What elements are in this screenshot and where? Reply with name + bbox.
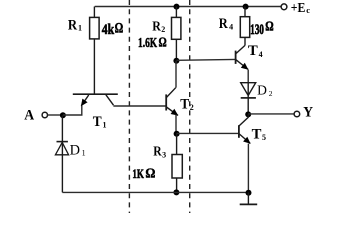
svg-text:2: 2 <box>269 89 273 98</box>
stage boundary dashed line right <box>189 0 191 213</box>
svg-text:3: 3 <box>162 150 166 159</box>
svg-text:1K: 1K <box>132 166 144 181</box>
node junction input <box>60 112 66 118</box>
svg-text:R: R <box>153 144 162 159</box>
wire T2 collector <box>175 61 177 88</box>
resistor R4 <box>240 7 249 46</box>
transistor T1 <box>73 94 118 106</box>
terminal Y <box>294 111 300 117</box>
wire top power rail <box>95 6 281 8</box>
wire T2 emitter <box>175 115 177 134</box>
wire bottom ground rail <box>62 191 248 193</box>
svg-text:+E: +E <box>291 0 306 15</box>
svg-text:D: D <box>257 83 267 98</box>
wire T2 emitter to T5 base <box>176 132 239 134</box>
wire T4 emitter to D2 <box>247 70 249 83</box>
svg-text:Ω: Ω <box>159 36 167 51</box>
svg-text:Ω: Ω <box>145 167 155 182</box>
terminal +Ec <box>281 4 287 10</box>
wire input to T1 emitter <box>63 106 82 115</box>
svg-text:D: D <box>70 143 81 159</box>
svg-text:1: 1 <box>82 149 86 158</box>
wire input A <box>48 114 63 116</box>
diode D2 <box>241 83 256 115</box>
wire output <box>248 113 294 115</box>
svg-text:2: 2 <box>161 25 165 34</box>
node junction T2 emitter / T5 base / R3 <box>174 131 180 137</box>
svg-text:5: 5 <box>262 133 266 142</box>
node junction output <box>245 111 251 117</box>
svg-text:Ω: Ω <box>265 19 274 34</box>
svg-text:Ω: Ω <box>115 21 124 37</box>
ground <box>240 192 258 204</box>
wire T4 base <box>176 58 235 61</box>
node junction T2 collector / T4 base <box>173 58 179 64</box>
resistor R2 <box>172 7 181 61</box>
svg-text:2: 2 <box>190 103 194 112</box>
svg-text:T: T <box>180 96 189 112</box>
diode D1 <box>55 115 68 192</box>
resistor R1 <box>90 7 100 95</box>
svg-text:A: A <box>24 108 34 124</box>
svg-text:130: 130 <box>250 22 264 38</box>
svg-text:R: R <box>219 16 228 32</box>
transistor T4 <box>236 45 249 69</box>
wire T5 emitter <box>247 144 249 193</box>
resistor R3 <box>172 134 182 193</box>
wire T1 collector to T2 base <box>113 105 166 107</box>
node junction R2 top <box>174 4 180 10</box>
svg-text:4: 4 <box>229 22 233 31</box>
transistor T5 <box>239 114 251 143</box>
svg-text:4k: 4k <box>102 22 115 38</box>
svg-text:Y: Y <box>303 105 313 121</box>
svg-text:R: R <box>68 18 77 34</box>
node junction ground <box>246 190 252 196</box>
terminal A <box>42 112 47 117</box>
svg-text:T: T <box>93 114 102 130</box>
transistor T2 <box>166 88 178 116</box>
svg-text:1: 1 <box>103 120 107 129</box>
svg-text:1: 1 <box>78 24 82 33</box>
svg-text:T: T <box>252 127 262 143</box>
svg-text:1.6K: 1.6K <box>138 35 158 50</box>
svg-text:R: R <box>152 19 161 34</box>
node junction R3 bottom <box>173 189 179 195</box>
svg-text:T: T <box>248 43 258 59</box>
svg-text:c: c <box>306 5 310 15</box>
node junction R4 top <box>243 4 249 10</box>
svg-text:4: 4 <box>259 50 263 59</box>
stage boundary dashed line left <box>128 0 130 213</box>
